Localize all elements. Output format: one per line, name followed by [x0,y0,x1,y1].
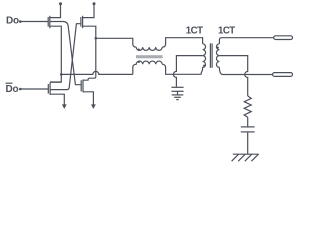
overline of Dobar [6,82,13,84]
wire Dobar to Q3 gate [20,88,48,90]
capacitor C1 plate 1 [171,86,183,88]
transistor Q4 drain [83,77,96,81]
svg-text:Do: Do [6,84,19,95]
supply dot Q2 drain [93,2,96,5]
transistor Q3 source [50,94,64,104]
ground G1 line 2 [174,96,181,98]
connector J2 [273,73,293,77]
transistor Q4 channel bar [82,79,84,92]
capacitor C1 plate 2 [171,90,183,92]
ground G1 line 1 [172,94,184,96]
polarity dot T2 left winding [203,65,205,67]
capacitor C2 plate 1 [241,126,255,128]
connector J1 [274,36,293,40]
transistor Q2 source [83,26,96,76]
wire T2 right winding bottom to connector J2 [219,67,272,74]
polarity dot T1 secondary [138,61,140,63]
svg-text:1CT: 1CT [186,26,203,37]
transistor Q2 (top-right) gate bar [80,17,82,27]
terminal dot Do [19,20,22,23]
transformer T2 left winding [201,44,205,75]
transistor Q1 drain [50,4,61,18]
node A junction dot (Q2 source / T1 top wire) [95,37,98,40]
chassis ground bar [233,153,259,155]
core T2 line 2 [211,43,213,67]
wire T1 bottom-right to T2 left winding bottom [162,64,201,74]
transistor Q2 drain [83,4,94,18]
transistor Q1 source [50,26,62,82]
wire C1 to ground [177,91,179,95]
arrow Q4 source (current sink) [91,104,96,109]
core T2 line 1 [209,43,211,67]
resistor R1 [244,96,251,117]
transformer T1 secondary (bottom winding) [133,61,162,74]
wire rail (Q1 source / Q3 drain to T1 bottom-left) with hop [61,71,133,74]
supply dot Q1 drain [59,2,62,5]
transistor Q4 (bottom-right) gate bar [80,80,82,91]
wire T2 right winding top to connector J1 [219,38,273,44]
chassis ground hatch 1 [232,154,239,161]
transformer T2 right winding [216,44,219,68]
svg-text:1CT: 1CT [218,26,235,37]
transistor Q1 (top-left) gate bar [47,17,49,27]
svg-text:Do: Do [6,16,19,27]
wire R1 to C2 [247,117,249,127]
chassis ground hatch 4 [251,154,258,161]
transistor Q2 channel bar [82,16,84,28]
transistor Q3 channel bar [49,82,51,95]
wire node A to T1 top-left [96,38,136,47]
wire T2 left center tap with hop [173,56,202,87]
transistor Q3 drain [50,81,61,83]
ground G1 line 3 [176,99,178,101]
wire C2 to chassis ground [247,132,249,154]
chassis ground hatch 3 [245,154,252,161]
transistor Q3 (bottom-left) gate bar [47,84,49,94]
wire Do to Q1 gate [20,21,48,23]
wire cross-couple diagonal B (Q2 gate to Q3 middle) [50,24,81,90]
wire T2 right center tap with hop [219,56,247,96]
capacitor C2 plate 2 [241,131,255,133]
core T1 [136,55,163,58]
arrow Q3 source (current sink) [62,104,67,109]
transistor Q1 channel bar [49,16,51,28]
polarity dot T2 right winding [217,47,219,49]
chassis ground hatch 2 [238,154,245,161]
terminal dot Dobar [19,88,22,91]
wire T1 top-right to T2 left winding top [162,38,202,47]
wire cross-couple diagonal A (Q1 middle to Q4 gate) [50,22,81,85]
transformer T1 primary (top winding) [136,47,162,50]
node rail junction dot [60,73,63,76]
polarity dot T1 primary [138,48,140,50]
transistor Q4 source [83,92,93,105]
